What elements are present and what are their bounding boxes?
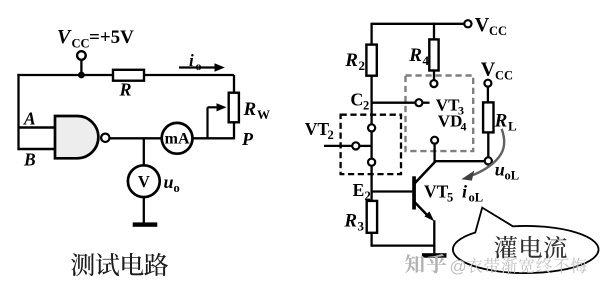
svg-text:A: A xyxy=(23,109,36,129)
svg-text:3: 3 xyxy=(358,219,365,234)
svg-text:R: R xyxy=(243,99,257,120)
svg-text:R: R xyxy=(343,211,357,232)
svg-text:R: R xyxy=(119,80,132,100)
svg-text:2: 2 xyxy=(363,99,369,113)
svg-text:i: i xyxy=(462,182,467,202)
svg-text:R: R xyxy=(344,50,358,71)
svg-text:2: 2 xyxy=(365,189,371,203)
svg-text:u: u xyxy=(164,172,174,192)
svg-text:VT: VT xyxy=(305,119,330,139)
svg-text:4: 4 xyxy=(461,120,467,134)
svg-text:VD: VD xyxy=(438,112,463,131)
svg-text:C: C xyxy=(350,90,363,110)
svg-text:V: V xyxy=(481,59,496,81)
svg-text:CC: CC xyxy=(72,36,90,50)
svg-text:oL: oL xyxy=(469,191,484,205)
svg-text:oL: oL xyxy=(505,169,520,183)
svg-text:V: V xyxy=(57,26,72,48)
svg-text:P: P xyxy=(241,129,254,149)
svg-text:V: V xyxy=(475,14,490,36)
svg-text:R: R xyxy=(408,45,422,66)
svg-text:CC: CC xyxy=(489,24,507,38)
svg-text:u: u xyxy=(495,160,505,180)
svg-text:VT: VT xyxy=(424,182,449,202)
svg-text:CC: CC xyxy=(495,68,513,82)
svg-text:2: 2 xyxy=(359,58,366,73)
svg-text:o: o xyxy=(196,59,202,73)
svg-text:E: E xyxy=(353,180,365,200)
svg-text:4: 4 xyxy=(423,53,430,68)
svg-text:R: R xyxy=(494,111,508,132)
svg-text:B: B xyxy=(23,150,36,170)
svg-text:@: @ xyxy=(450,257,467,276)
svg-text:=+5V: =+5V xyxy=(89,27,134,48)
svg-text:2: 2 xyxy=(328,128,334,142)
svg-text:5: 5 xyxy=(447,191,453,205)
svg-text:V: V xyxy=(138,172,150,191)
svg-text:mA: mA xyxy=(165,131,190,148)
svg-text:L: L xyxy=(508,119,517,134)
svg-text:o: o xyxy=(174,181,180,195)
svg-text:i: i xyxy=(189,51,194,70)
svg-text:W: W xyxy=(257,107,270,122)
